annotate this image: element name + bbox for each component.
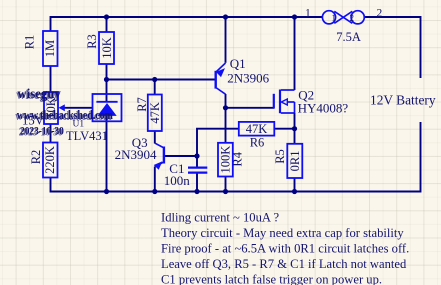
wire Q1 collector to R4 top	[225, 94, 227, 143]
svg-text:100n: 100n	[164, 173, 191, 188]
svg-text:R5: R5	[273, 149, 287, 164]
svg-text:2: 2	[350, 13, 355, 23]
capacitor C1	[164, 161, 208, 188]
wire R7 bottom to Q3 collector	[154, 131, 156, 144]
resistor R2	[29, 143, 58, 178]
svg-text:www.thebackshed.com: www.thebackshed.com	[17, 109, 114, 122]
svg-text:10K: 10K	[100, 37, 114, 59]
svg-text:7.5A: 7.5A	[336, 30, 361, 44]
svg-text:R1: R1	[23, 35, 37, 50]
svg-text:Idling current ~ 10uA ?: Idling current ~ 10uA ?	[161, 211, 279, 225]
wire battery minus to bottom rail to R2	[51, 122, 421, 192]
wire R4 bottom pin	[225, 177, 227, 192]
wire Q1 emitter to top rail	[225, 17, 227, 63]
node R4 ground	[223, 189, 228, 194]
svg-text:R3: R3	[85, 34, 99, 49]
transistor Q3 2N3904	[115, 135, 164, 170]
node C1 ground	[194, 189, 199, 194]
node U1 anode ground	[104, 189, 109, 194]
wire pot bottom pin	[50, 124, 52, 143]
node R3 top rail	[104, 14, 109, 19]
svg-text:0R1: 0R1	[288, 150, 302, 171]
wire fuse pin2 to battery plus	[364, 17, 420, 78]
node R3 bottom divider	[104, 77, 109, 82]
node Q3 base C1 R6	[194, 153, 199, 158]
svg-text:1M: 1M	[43, 40, 57, 57]
wire Q1 collector node to Q2 gate	[226, 107, 275, 109]
wire Q3 emitter to ground rail	[154, 167, 156, 192]
resistor R4	[218, 143, 245, 177]
svg-text:Leave off Q3, R5 - R7 & C1 if: Leave off Q3, R5 - R7 & C1 if Latch not …	[161, 257, 407, 271]
svg-text:Q1: Q1	[230, 56, 246, 71]
svg-text:2023-10-30: 2023-10-30	[20, 126, 64, 138]
potentiometer 10K	[44, 92, 65, 124]
resistor R7	[135, 95, 162, 132]
wire R3 bottom to U1 cathode	[106, 64, 108, 102]
wire U1 anode to ground rail	[106, 116, 108, 192]
shunt regulator U1 TLV431	[66, 94, 122, 143]
watermark wiseguy	[15, 85, 113, 139]
node Q2 source R6 R5	[292, 126, 297, 131]
svg-text:Theory circuit - May need extr: Theory circuit - May need extra cap for …	[161, 226, 404, 240]
svg-text:C1 prevents latch false trigge: C1 prevents latch false trigger on power…	[161, 273, 382, 285]
fuse F 7.5A	[305, 7, 383, 44]
svg-text:12V Battery: 12V Battery	[370, 93, 436, 108]
wire U1 ref to pot wiper	[61, 107, 93, 109]
wire top rail from R1 to fuse pin1	[51, 17, 323, 31]
svg-text:R6: R6	[250, 135, 265, 149]
wire Q2 source to R5 top	[294, 113, 296, 144]
svg-text:R7: R7	[135, 97, 149, 112]
svg-text:2N3904: 2N3904	[115, 147, 157, 162]
wire R3 top pin	[106, 17, 108, 32]
node Q3 emitter ground	[152, 189, 157, 194]
resistor R3	[85, 32, 114, 64]
svg-text:220K: 220K	[43, 146, 57, 174]
svg-text:47K: 47K	[148, 102, 162, 124]
svg-text:47K: 47K	[246, 122, 268, 136]
node R7 top	[152, 77, 157, 82]
wire Q3 base to node B	[165, 155, 197, 157]
wire node base rail R3 to Q1 base	[107, 79, 216, 81]
svg-text:1: 1	[305, 7, 311, 19]
svg-text:R2: R2	[29, 150, 43, 165]
resistor R6	[239, 122, 274, 149]
svg-text:2N3906: 2N3906	[227, 70, 269, 85]
wire Q2 drain to top rail	[294, 17, 296, 90]
wire pot top pin	[50, 67, 52, 93]
mosfet Q2 HY4008	[274, 88, 349, 116]
wire C1 bottom pin	[196, 173, 198, 192]
svg-text:R4: R4	[231, 151, 245, 166]
node R5 ground	[292, 189, 297, 194]
svg-text:TLV431: TLV431	[66, 129, 108, 143]
svg-text:wiseguy: wiseguy	[18, 85, 62, 101]
svg-text:1: 1	[332, 13, 337, 23]
svg-text:HY4008?: HY4008?	[298, 101, 349, 116]
wire R6 left to node B to C1 top	[197, 129, 239, 168]
resistor R5	[273, 144, 302, 178]
resistor R1	[23, 31, 58, 66]
svg-text:2: 2	[377, 7, 383, 19]
node Q1 collector gate	[223, 105, 228, 110]
transistor Q1 2N3906	[216, 56, 270, 94]
svg-text:Fire proof - at ~6.5A with 0R1: Fire proof - at ~6.5A with 0R1 circuit l…	[161, 242, 409, 256]
annotation text block	[161, 211, 409, 285]
wire R5 bottom pin	[294, 178, 296, 192]
wire R6 right to Q2 source node	[274, 128, 294, 130]
wire R7 top pin	[154, 80, 156, 95]
node Q1 emitter top rail	[223, 14, 228, 19]
node Q2 drain top rail	[292, 14, 297, 19]
